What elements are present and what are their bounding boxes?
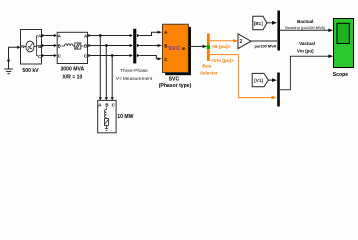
impedance block 3000 MVA (57, 32, 87, 63)
tap wire B down to load (105, 46, 107, 98)
junction node A (99, 34, 102, 37)
SVC block (163, 24, 189, 72)
svg-text:X/R = 10: X/R = 10 (62, 74, 82, 80)
svg-text:Bus: Bus (202, 64, 211, 70)
scope block (334, 19, 354, 68)
svg-text:500 kV: 500 kV (22, 68, 39, 74)
ground (4, 69, 13, 74)
mux1 (277, 11, 280, 51)
junction node C (111, 54, 114, 57)
wire SVC m to bus selector (189, 45, 204, 47)
svg-text:N: N (21, 44, 24, 49)
svg-text:Three-Phase: Three-Phase (120, 68, 148, 74)
three-phase V-I measurement block (133, 29, 136, 64)
svg-text:SVC: SVC (168, 46, 180, 52)
junction node B (105, 44, 108, 47)
bus wire B impedance to measurement (91, 45, 130, 47)
svg-text:<Vm (pu)>: <Vm (pu)> (211, 58, 234, 63)
svg-text:(Phasor type): (Phasor type) (159, 83, 192, 89)
wire B source to impedance (45, 45, 55, 47)
wire ground to source N (9, 47, 18, 68)
tap wire C down to load (111, 56, 113, 98)
impedance input port B (54, 44, 57, 47)
wire B measurement to SVC (140, 45, 158, 47)
three-phase source block (21, 30, 42, 65)
source internal wiring (34, 36, 38, 56)
impedance RL icon (62, 43, 84, 49)
source AC symbol (26, 41, 34, 52)
svg-text:10 MW: 10 MW (117, 114, 133, 120)
svg-text:3000 MVA: 3000 MVA (60, 67, 84, 73)
from block B1 (253, 16, 267, 29)
source N input port arrow (17, 46, 20, 49)
wire A measurement to SVC (140, 32, 158, 35)
scope screen (337, 23, 349, 43)
gain block (238, 34, 251, 49)
svg-text:2: 2 (240, 39, 243, 45)
load RL icon (104, 108, 108, 131)
SVC block shadow (165, 27, 191, 75)
impedance input port A (54, 34, 57, 37)
impedance output port B (88, 44, 91, 47)
load input port arrows (99, 97, 102, 100)
bus selector green port mark (207, 45, 210, 49)
wire C measurement to SVC (140, 56, 158, 59)
bus wire A impedance to measurement (91, 35, 130, 37)
impedance output port C (88, 54, 91, 57)
svg-text:Scope: Scope (333, 72, 348, 78)
wire mux2 to scope (280, 56, 329, 90)
ground port arrow (7, 60, 10, 63)
wire B1 to mux1 (267, 22, 272, 24)
impedance output port A (88, 34, 91, 37)
svg-text:Selector: Selector (200, 71, 218, 76)
svg-text:Vactual: Vactual (299, 41, 315, 46)
svg-text:SVC: SVC (169, 77, 180, 83)
load block 10 MW (98, 100, 116, 132)
wire Vm(pu) selector to mux2 (210, 55, 272, 98)
svg-text:[B1]: [B1] (254, 21, 263, 26)
svg-text:m: m (181, 46, 185, 51)
bus selector bar (207, 34, 210, 62)
svg-text:V-I Measurement: V-I Measurement (116, 76, 153, 82)
source output port C (42, 54, 45, 57)
svg-text:pu/100 MVA: pu/100 MVA (255, 44, 277, 49)
measurement output port arrows (137, 34, 140, 37)
wire mux1 to scope (280, 29, 329, 31)
mux2 (277, 73, 280, 107)
wire V1 to mux2 (268, 79, 272, 81)
source output port A (42, 34, 45, 37)
measurement input port arrows (130, 34, 133, 37)
from block V1 (252, 73, 268, 86)
wire C source to impedance (45, 55, 55, 57)
svg-text:Vm (pu): Vm (pu) (297, 48, 314, 53)
wire A source to impedance (45, 35, 55, 37)
source output port B (42, 44, 45, 47)
svg-text:<B (pu)>: <B (pu)> (211, 44, 230, 49)
svg-text:Bactual: Bactual (297, 19, 313, 24)
bus wire C impedance to measurement (91, 55, 130, 57)
wire gain to mux1 (251, 40, 277, 42)
wire B(pu) selector to gain (210, 40, 234, 42)
tap wire A down to load (99, 36, 101, 98)
svg-text:Bcontrol (pu/100 MVA): Bcontrol (pu/100 MVA) (285, 25, 326, 30)
source internal arrow (24, 46, 26, 48)
impedance input port C (54, 54, 57, 57)
svg-text:[V1]: [V1] (254, 78, 263, 83)
